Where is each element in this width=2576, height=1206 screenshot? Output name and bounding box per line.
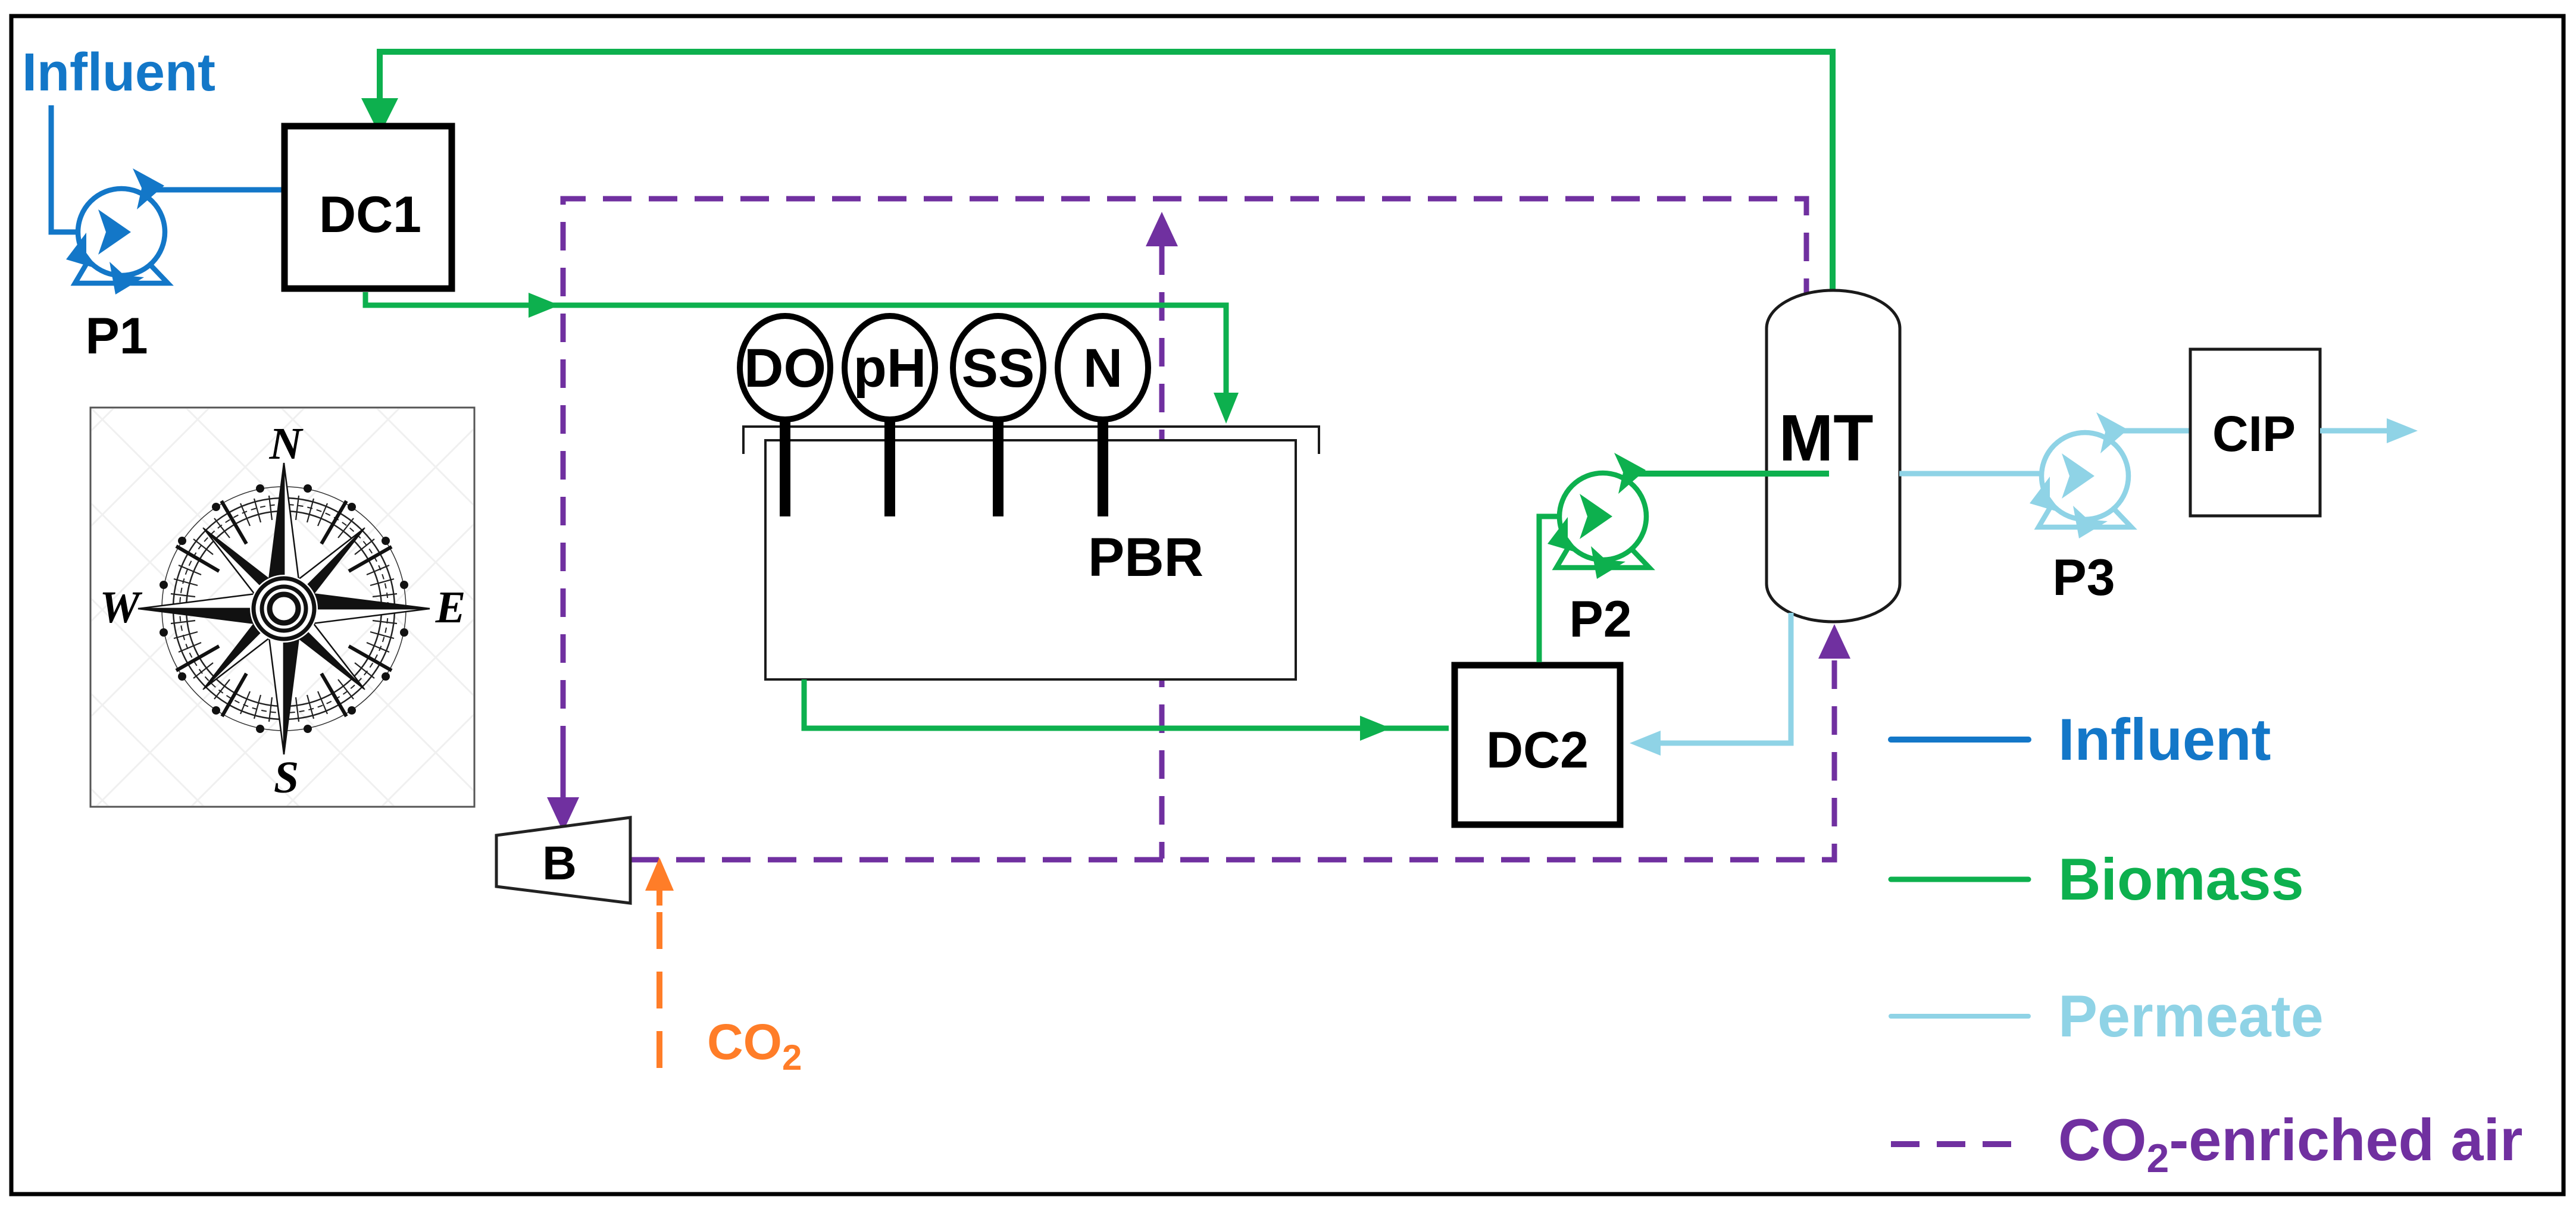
PBR tank rim xyxy=(743,427,1319,454)
wire biomass: DC2 top up to P2 xyxy=(1539,516,1565,662)
pump P2 xyxy=(1548,453,1649,579)
arrow purple into blower B xyxy=(547,797,579,832)
svg-text:W: W xyxy=(99,582,143,632)
sensor N xyxy=(1098,414,1108,516)
arrow purple up into MT bottom xyxy=(1818,624,1850,659)
compass box xyxy=(90,408,474,807)
vessel MT xyxy=(1767,290,1900,622)
svg-text:N: N xyxy=(269,419,304,469)
arrow green down into PBR xyxy=(1214,393,1239,424)
arrow permeate out right xyxy=(2387,418,2418,443)
compass star xyxy=(274,521,372,619)
arrow permeate left into DC2 xyxy=(1630,731,1661,756)
svg-text:P1: P1 xyxy=(85,308,148,365)
arrow green down into DC1 xyxy=(361,98,398,135)
sensor pH xyxy=(884,414,895,516)
wire CO2-enriched air: vertical from PBR up to top line xyxy=(1159,246,1165,859)
sensor SS xyxy=(993,414,1003,516)
arrow green right into DC2 xyxy=(1360,716,1391,741)
legend CO2-enriched air line xyxy=(1891,1141,2028,1147)
pump P1 xyxy=(66,168,168,295)
wire biomass: DC1 top recycle from MT xyxy=(380,52,1833,293)
svg-text:P2: P2 xyxy=(1569,591,1631,648)
wire influent: down then right to pump P1 xyxy=(51,105,101,232)
pump P3 xyxy=(2030,412,2131,538)
arrow purple up to top line xyxy=(1146,212,1178,246)
wire biomass: DC1 bottom to PBR xyxy=(365,292,1226,396)
arrow orange up into purple line xyxy=(645,857,674,891)
svg-text:SS: SS xyxy=(962,338,1035,399)
wire permeate: CIP outlet xyxy=(2320,428,2388,434)
wire CO2-enriched air: bottom horizontal from B to MT bottom xyxy=(630,657,1834,860)
svg-text:Permeate: Permeate xyxy=(2058,983,2324,1049)
box DC1 xyxy=(285,126,452,289)
wire biomass: PBR bottom to DC2 xyxy=(804,679,1449,728)
svg-text:PBR: PBR xyxy=(1088,527,1203,588)
svg-text:DC2: DC2 xyxy=(1486,722,1589,779)
svg-text:CIP: CIP xyxy=(2212,406,2296,462)
svg-text:B: B xyxy=(542,837,577,889)
svg-text:Biomass: Biomass xyxy=(2058,846,2304,912)
compass center xyxy=(250,575,318,643)
svg-text:Influent: Influent xyxy=(2058,706,2271,772)
wire purple shaft into B xyxy=(561,744,566,802)
wire permeate: MT right to P3 xyxy=(1899,471,2062,477)
box DC2 xyxy=(1455,665,1620,825)
wire biomass: P2 outlet into MT xyxy=(1629,471,1829,477)
legend biomass line xyxy=(1891,877,2028,882)
legend permeate line xyxy=(1891,1014,2028,1019)
sensor DO xyxy=(780,414,790,516)
svg-text:Influent: Influent xyxy=(22,43,215,102)
svg-text:MT: MT xyxy=(1779,402,1874,475)
wire permeate: MT bottom drain to DC2 xyxy=(1661,613,1791,743)
compass dotted ring xyxy=(162,487,406,731)
svg-text:E: E xyxy=(435,582,466,632)
legend influent line xyxy=(1891,737,2028,743)
compass rings xyxy=(173,498,395,719)
svg-text:S: S xyxy=(274,753,299,803)
svg-text:N: N xyxy=(1083,338,1123,399)
arrow green right on DC1-PBR line xyxy=(529,293,559,318)
wire orange shaft below arrow xyxy=(656,866,662,906)
wire influent: P1 outlet to DC1 xyxy=(145,187,282,193)
blower B xyxy=(496,817,630,903)
svg-text:CO2-enriched air: CO2-enriched air xyxy=(2058,1107,2523,1181)
wire CO2-enriched air: left vertical + top horizontal + right down to MT top xyxy=(563,199,1806,800)
svg-text:DO: DO xyxy=(744,338,826,399)
PBR tank xyxy=(765,440,1296,679)
svg-text:DC1: DC1 xyxy=(319,186,421,243)
svg-text:P3: P3 xyxy=(2052,549,2115,606)
box CIP xyxy=(2190,349,2320,516)
wire permeate: P3 outlet to CIP xyxy=(2107,428,2190,434)
svg-text:pH: pH xyxy=(854,338,927,399)
wire CO2 dashed orange xyxy=(656,881,662,1068)
